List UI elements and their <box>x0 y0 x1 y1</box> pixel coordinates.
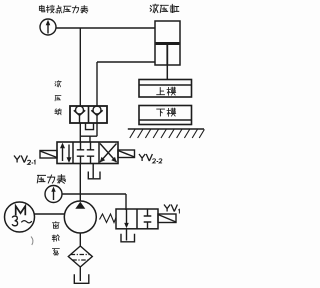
label YV2-2 <box>139 154 152 161</box>
label 液压锁 (vertical) <box>55 81 61 115</box>
hydraulic cylinder <box>155 21 180 65</box>
pump <box>64 201 96 233</box>
electric motor M <box>5 202 35 232</box>
U2 centre blocked ports <box>77 142 94 150</box>
pilot check valve right <box>93 106 101 114</box>
main tank <box>74 274 89 283</box>
wire gauge / branch to YV1 valve <box>62 193 126 195</box>
YV1 right position blocked ports <box>144 209 152 229</box>
BODY <box>5 4 205 283</box>
label 液压缸 <box>150 4 179 13</box>
U2 right position crossed arrows <box>100 144 117 163</box>
label YV1 <box>164 205 177 212</box>
wire A vertical to lock <box>79 28 81 106</box>
upper mold 上模 <box>139 80 192 98</box>
pressure gauge <box>45 186 62 203</box>
wire T to tank <box>92 164 94 179</box>
tank under YV1 valve <box>126 229 128 241</box>
electric contact pressure gauge <box>40 19 56 35</box>
wire lock B jog to valve <box>80 123 97 142</box>
solenoid YV2-2 <box>118 150 135 158</box>
motor label M 3~ <box>16 206 26 215</box>
U2 left position arrows <box>62 147 64 162</box>
piston rod wire <box>166 65 168 80</box>
solenoid YV1 <box>158 214 176 223</box>
pilot loop under lock <box>86 123 94 130</box>
wire branch down <box>125 194 127 210</box>
spring <box>100 214 117 223</box>
wire filter to tank <box>79 267 81 281</box>
artifact small mark <box>31 237 33 246</box>
label 齿轮泵 (vertical) <box>52 222 59 256</box>
wire B vertical to lock <box>96 62 98 106</box>
filter <box>68 246 92 267</box>
hydraulic lock box <box>70 106 107 123</box>
wire B horizontal to cylinder <box>97 61 155 63</box>
tank under valve <box>88 172 100 179</box>
ground line with hatching <box>128 128 204 130</box>
label 电接点压力表 <box>39 5 87 13</box>
lower mold 下模 <box>139 106 192 125</box>
solenoid YV2-1 <box>40 151 57 159</box>
shaft wire motor-pump <box>34 213 64 215</box>
wire P valve to pump <box>79 164 81 202</box>
unloading valve YV1 body <box>116 209 158 229</box>
wire pump to filter <box>79 233 81 246</box>
label YV2-1 <box>14 156 27 163</box>
pilot check valve left <box>76 106 84 114</box>
wire lock A to valve <box>79 123 81 142</box>
YV1 left position arrow <box>126 209 128 225</box>
directional valve U2 body <box>57 142 118 164</box>
wire gauge to cylinder (line A top) <box>56 27 155 29</box>
label 压力表 <box>37 175 65 184</box>
